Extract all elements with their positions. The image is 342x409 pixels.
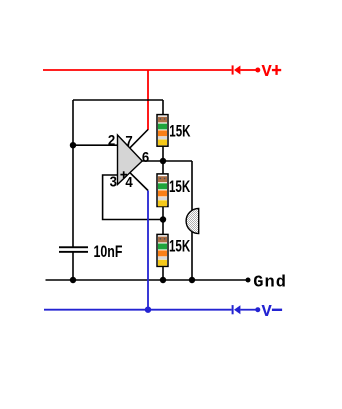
wire: pin 3 feedback loop [103,175,163,220]
svg-text:10nF: 10nF [94,243,123,261]
capacitor C1 plates [59,246,88,248]
junction node: R3 on ground [160,277,166,283]
wire: speaker branch vertical [191,161,193,280]
svg-text:3: 3 [110,172,117,189]
svg-text:6: 6 [142,148,149,165]
svg-text:V: V [262,63,273,82]
V+ terminal dot [255,68,260,73]
V- connector lead wire [240,309,255,311]
wire: feedback top from left branch to resistor chain [73,99,163,101]
V- terminal dot [255,307,260,312]
svg-text:15K: 15K [169,122,191,141]
wire: pin 6 output [142,160,192,162]
resistor R1 body [157,115,168,147]
V- connector bar [232,305,234,314]
V+ vertical supply wire [147,70,149,130]
svg-text:4: 4 [125,173,132,190]
resistor R2 body [157,174,168,207]
svg-text:15K: 15K [169,178,191,197]
resistor R3 body [157,234,168,266]
wire: resistor chain vertical [162,100,164,280]
wire: pin 4 diagonal to V- [130,172,148,190]
wire: capacitor bottom lead [72,253,74,281]
V+ connector lead wire [240,69,255,71]
svg-text:7: 7 [125,132,132,149]
V+ connector arrow [234,66,240,75]
junction node: speaker on ground [189,277,195,283]
op-amp U1 [118,135,143,185]
svg-text:15K: 15K [169,238,191,257]
V- rail wire [44,309,232,311]
ground terminal dot [246,278,251,283]
svg-text:2: 2 [108,131,115,148]
junction node: R2-R3 / feedback [160,216,166,222]
speaker LS1 [186,208,199,233]
junction node: pin2 / cap branch [70,142,76,148]
wire: pin 2 input [73,144,118,146]
V+ rail wire [43,69,232,71]
wire: pin 7 diagonal to V+ [130,130,148,149]
wire: left vertical branch (to capacitor) [72,100,74,247]
op-amp plus marking [120,174,127,176]
svg-text:V: V [262,303,273,322]
svg-text:Gnd: Gnd [253,274,287,293]
ground rail wire [46,279,247,281]
V- vertical supply wire [147,191,149,310]
junction node: output / R1-R2 [160,158,166,164]
V- connector arrow [234,305,240,314]
junction node: V- supply on rail [145,307,151,313]
junction node: cap on ground [70,277,76,283]
V+ connector bar [232,65,234,74]
